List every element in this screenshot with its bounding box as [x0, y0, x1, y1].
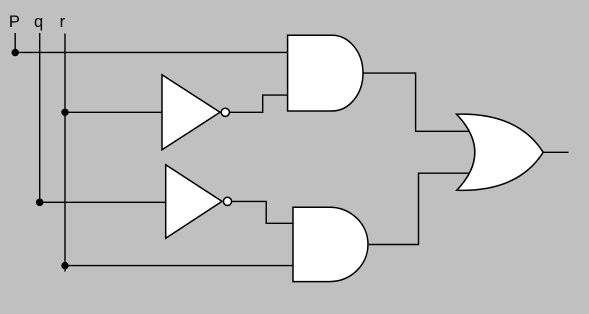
wire AND2 output to OR bottom input — [367, 173, 472, 244]
node P junction dot — [12, 49, 19, 56]
wire P to AND1 top input — [15, 51, 288, 53]
svg-text:P: P — [9, 13, 20, 31]
node r junction dot lower — [61, 262, 68, 269]
node q junction dot — [36, 199, 44, 207]
inverter NOT2 triangle — [166, 165, 222, 238]
wire r to NOT1 input — [65, 111, 165, 113]
svg-text:q: q — [34, 13, 43, 31]
node r junction dot upper — [61, 109, 68, 116]
inverter NOT1 triangle — [162, 75, 220, 150]
wire r to AND2 bottom input — [65, 265, 295, 267]
AND gate AND1 — [288, 35, 363, 111]
wire P input vertical — [14, 33, 16, 52]
svg-text:r: r — [60, 13, 66, 31]
inverter NOT1 bubble — [221, 108, 229, 116]
wire q input vertical — [39, 33, 41, 202]
wire NOT1 output to AND1 bottom input — [229, 95, 289, 112]
wire OR output — [543, 151, 569, 153]
wire q to NOT2 input — [40, 201, 168, 203]
wire NOT2 output to AND2 top input — [231, 201, 295, 223]
OR gate OR1 — [457, 114, 544, 190]
AND gate AND2 — [293, 207, 368, 281]
wire r input vertical — [64, 34, 66, 272]
inverter NOT2 bubble — [223, 197, 231, 205]
wire AND1 output to OR top input — [362, 73, 472, 131]
